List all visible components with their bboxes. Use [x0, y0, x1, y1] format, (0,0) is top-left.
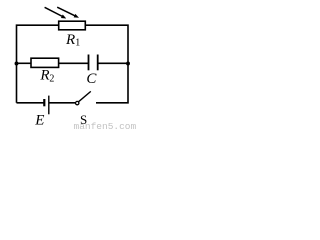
svg-text:manfen5.com: manfen5.com [74, 121, 137, 131]
svg-text:2: 2 [49, 73, 54, 84]
svg-text:R: R [39, 67, 49, 83]
svg-text:R: R [65, 32, 75, 48]
svg-text:C: C [86, 71, 97, 87]
svg-text:E: E [34, 112, 44, 128]
svg-text:1: 1 [75, 38, 80, 49]
